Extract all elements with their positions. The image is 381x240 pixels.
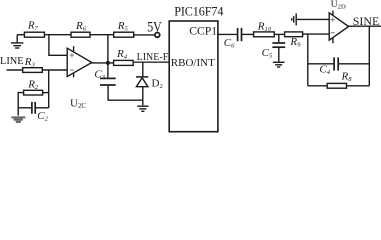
capacitor C2 bbox=[18, 102, 49, 114]
wire U2C output to R4 bbox=[92, 62, 114, 64]
svg-text:U2C: U2C bbox=[70, 97, 86, 110]
op-amp U2C bbox=[67, 48, 92, 76]
op-amp U2D bbox=[329, 13, 348, 40]
wire left side of R2/C2 down to ground bbox=[18, 93, 23, 116]
svg-text:U2D: U2D bbox=[331, 0, 346, 11]
wire rotated ground to U2D + input bbox=[297, 18, 329, 20]
wire R2 to node bbox=[43, 92, 49, 94]
capacitor C5 bbox=[272, 34, 285, 61]
resistor R10 bbox=[254, 32, 275, 37]
minus sign U2D bbox=[331, 32, 335, 34]
svg-text:R7: R7 bbox=[27, 19, 39, 32]
svg-text:D2: D2 bbox=[152, 77, 163, 90]
svg-text:R10: R10 bbox=[257, 20, 272, 33]
svg-text:SINE: SINE bbox=[353, 14, 379, 28]
resistor R8 bbox=[308, 83, 370, 88]
resistor R5 bbox=[114, 32, 134, 37]
svg-text:C4: C4 bbox=[319, 63, 330, 76]
wire R3 to U2C - input bbox=[42, 69, 67, 71]
wire LINE to R3 bbox=[7, 69, 23, 71]
ground (rotated, at U2D + input) bbox=[292, 13, 297, 25]
wire C3 bottom to diode ground line bbox=[108, 85, 143, 100]
resistor R3 bbox=[23, 68, 43, 73]
diode D2 bbox=[136, 62, 148, 105]
resistor R2 bbox=[24, 90, 43, 95]
ground (below D2) bbox=[137, 106, 148, 111]
wire U2D output to SINE bbox=[348, 25, 381, 27]
resistor R4 bbox=[114, 60, 134, 65]
svg-text:R3: R3 bbox=[24, 56, 36, 69]
svg-text:R9: R9 bbox=[289, 36, 301, 49]
junction dot (U2C output node) bbox=[106, 61, 110, 65]
svg-text:C2: C2 bbox=[37, 110, 48, 123]
svg-text:C5: C5 bbox=[262, 47, 273, 60]
svg-text:R4: R4 bbox=[116, 48, 128, 61]
ground (top-left, under R7) bbox=[11, 35, 23, 48]
svg-text:5V: 5V bbox=[147, 18, 162, 34]
ground (gray, below C2) bbox=[11, 116, 25, 122]
svg-text:CCP1: CCP1 bbox=[189, 24, 217, 37]
wire ground corner to R7 bbox=[17, 34, 24, 36]
wire CCP1 pin to C6 bbox=[218, 33, 237, 35]
wire feedback right vertical bbox=[368, 26, 370, 86]
minus sign U2C bbox=[70, 69, 74, 71]
plus sign U2D bbox=[331, 18, 335, 22]
plus sign U2C bbox=[70, 53, 74, 57]
PIC16F74 box bbox=[169, 21, 218, 132]
svg-text:C3: C3 bbox=[94, 68, 105, 81]
wire R6 to R5 bbox=[90, 34, 114, 36]
wire C6 to R10 bbox=[242, 33, 253, 35]
svg-text:RBO/INT: RBO/INT bbox=[171, 57, 215, 69]
wire R10 to R9 bbox=[274, 33, 284, 35]
resistor R9 bbox=[285, 32, 303, 37]
svg-text:LINE-F: LINE-F bbox=[137, 52, 169, 63]
wire R7 to R6 bbox=[44, 34, 71, 36]
svg-text:LINE: LINE bbox=[0, 56, 24, 67]
svg-text:R8: R8 bbox=[341, 70, 353, 83]
wire junction down to output node bbox=[107, 35, 109, 63]
wire R5 to 5V terminal bbox=[134, 34, 155, 36]
capacitor C6 bbox=[238, 28, 242, 41]
5V terminal circle bbox=[155, 33, 160, 38]
wire node down to R2/C2 right side bbox=[48, 70, 50, 108]
wire feedback left vertical bbox=[307, 34, 309, 86]
wire R9 to U2D - input bbox=[303, 33, 330, 35]
svg-text:PIC16F74: PIC16F74 bbox=[174, 4, 223, 18]
capacitor C3 bbox=[100, 63, 116, 85]
capacitor C4 bbox=[308, 57, 370, 70]
svg-text:R6: R6 bbox=[75, 20, 87, 33]
resistor R7 bbox=[24, 32, 44, 37]
wire junction down to U2C + input bbox=[49, 35, 67, 56]
ground (below C5) bbox=[273, 62, 285, 67]
svg-text:C6: C6 bbox=[224, 37, 235, 50]
svg-text:R2: R2 bbox=[27, 78, 39, 91]
wire LINE-F (gray) to PIC box bbox=[133, 61, 169, 63]
svg-text:R5: R5 bbox=[117, 20, 129, 33]
resistor R6 bbox=[71, 32, 90, 37]
